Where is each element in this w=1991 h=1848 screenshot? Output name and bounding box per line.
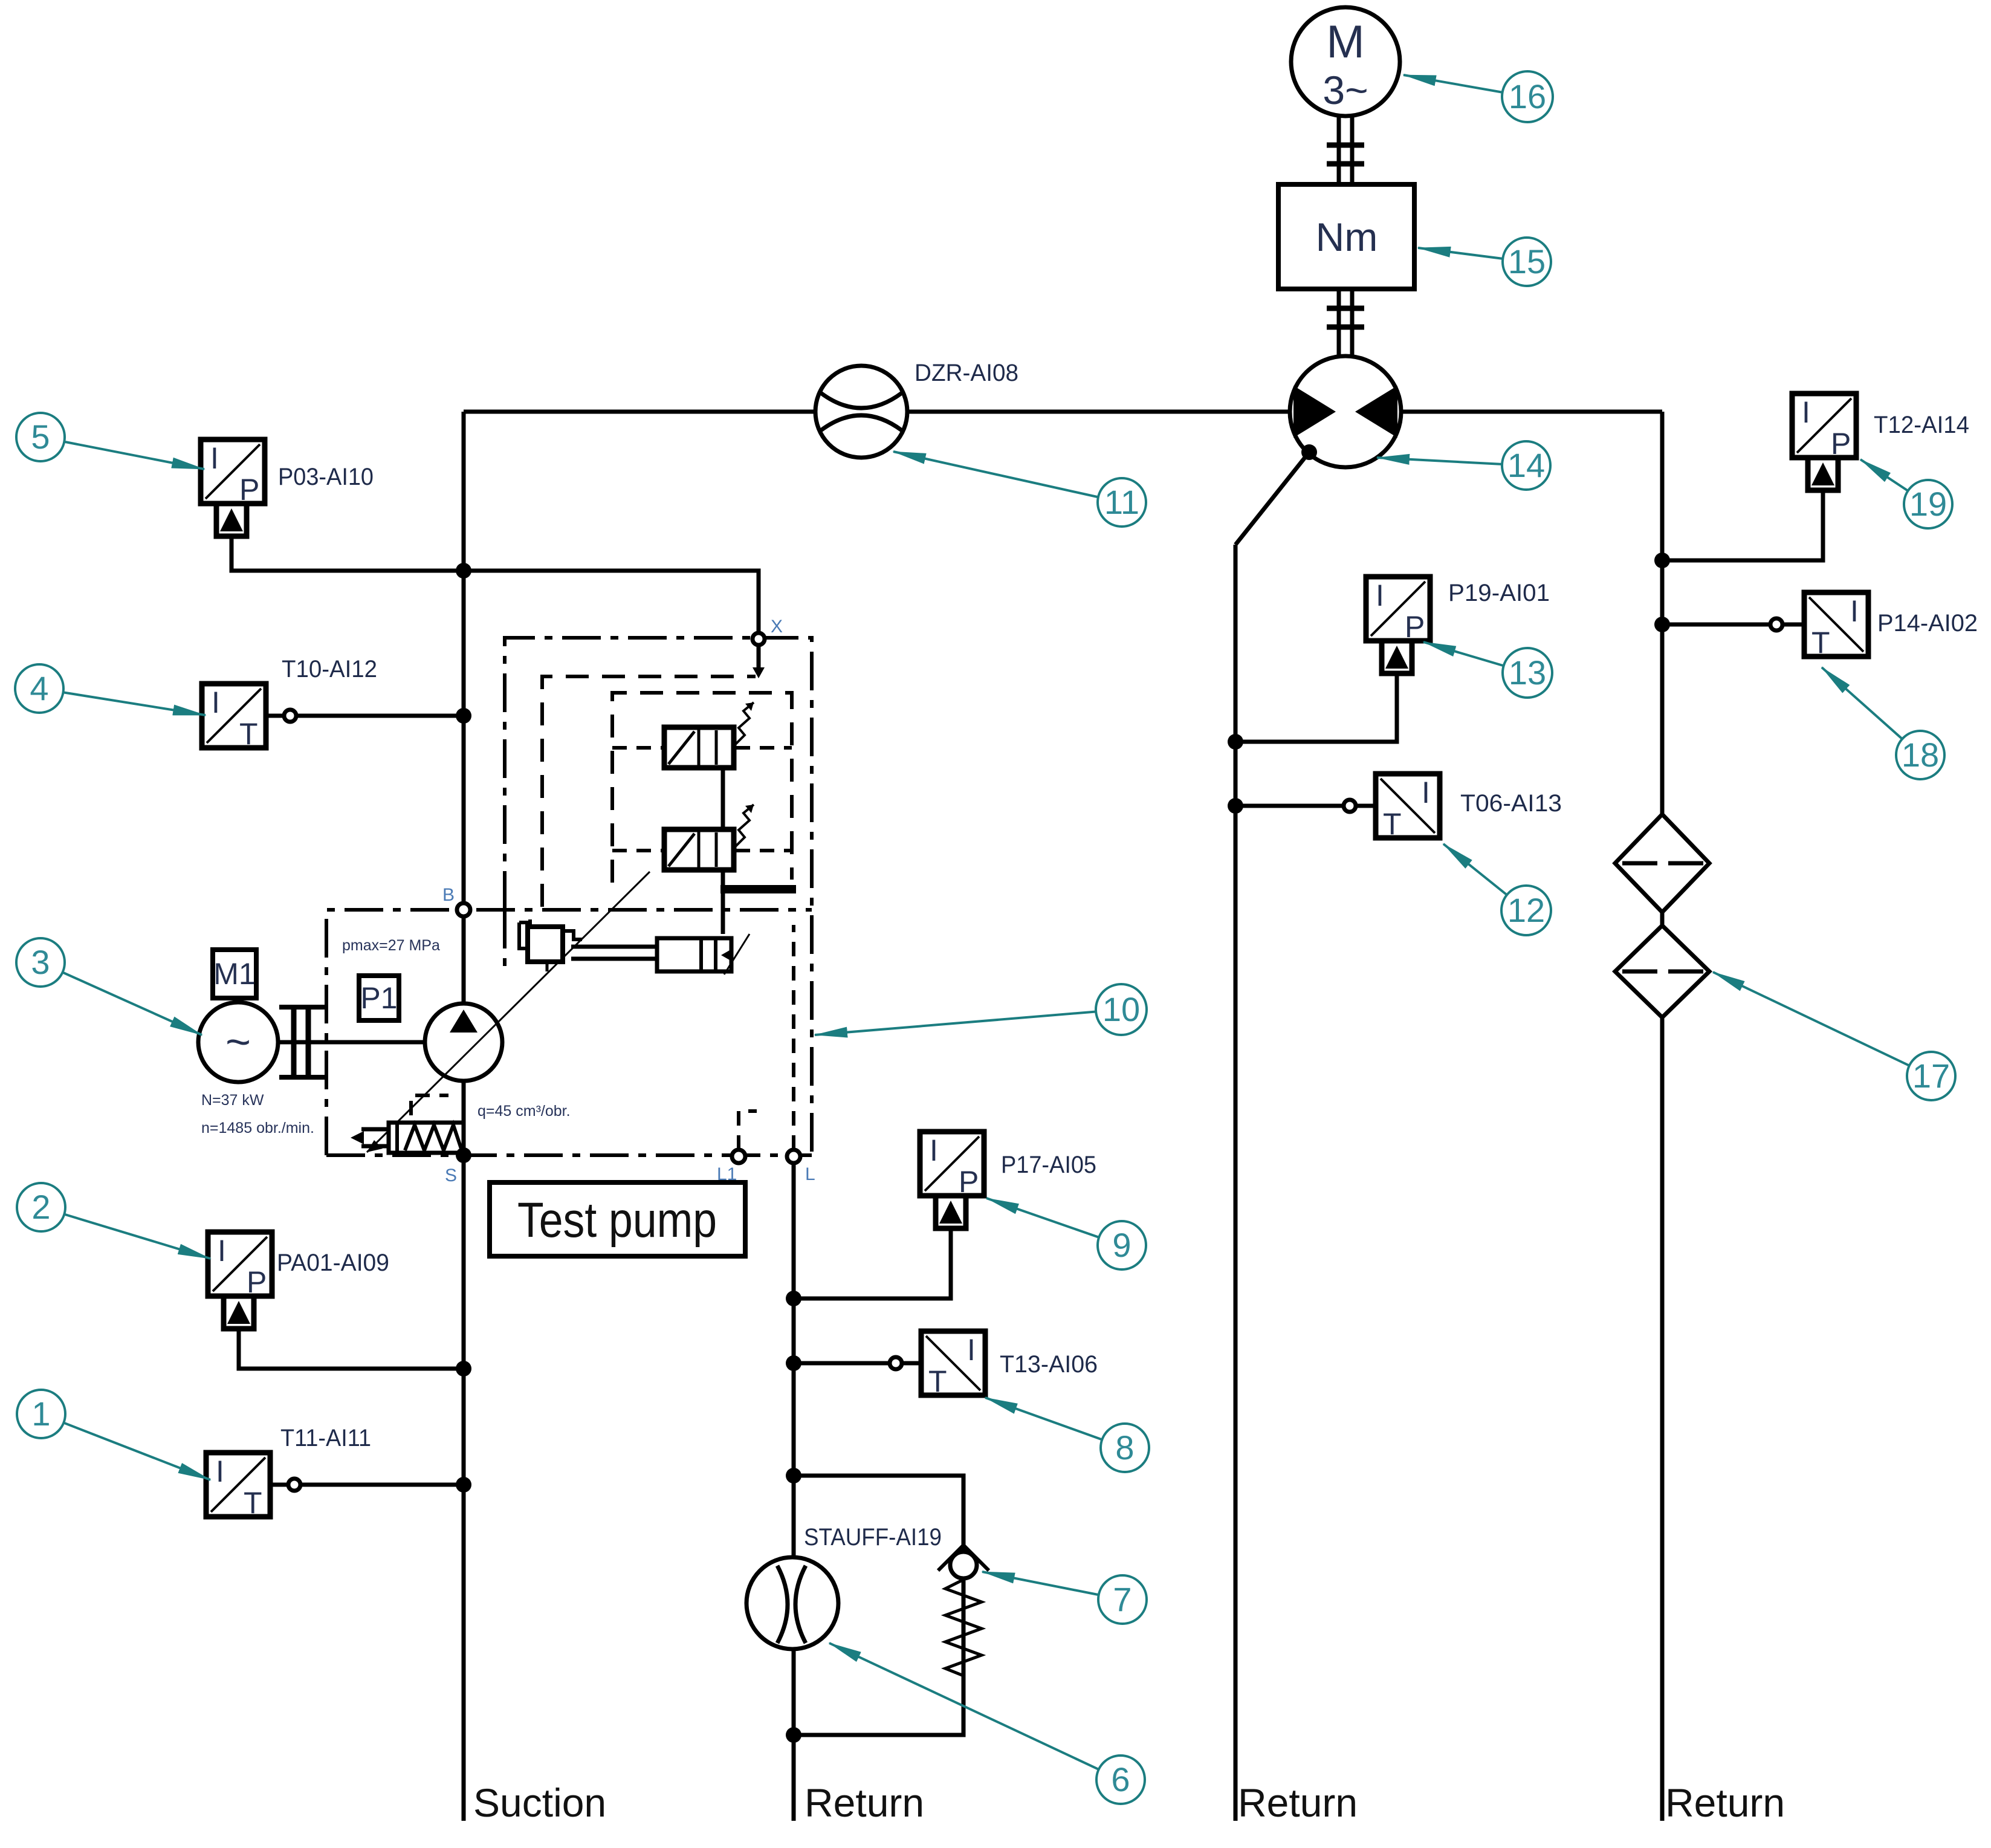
solenoid valve SV1 connection stubs	[612, 746, 792, 750]
svg-text:I: I	[967, 1333, 976, 1367]
callout 11	[893, 452, 1146, 527]
svg-text:5: 5	[31, 418, 50, 456]
wire: compensator rod (double line)	[571, 947, 658, 959]
callout 1	[17, 1390, 210, 1480]
pressure sensor P19-AI01	[1366, 577, 1550, 673]
svg-text:DZR-AI08: DZR-AI08	[915, 360, 1018, 386]
callout 5	[16, 413, 204, 469]
temperature sensor T13-AI06	[890, 1331, 1098, 1398]
hydraulic motor (item 14)	[1290, 356, 1401, 467]
pilot control valve of compensator	[519, 919, 582, 971]
junction on V2 at bypass bottom	[786, 1727, 801, 1743]
electric motor M 3~ (item 16)	[1291, 7, 1400, 116]
junction on V2 at bypass top	[786, 1468, 801, 1483]
svg-text:14: 14	[1507, 446, 1545, 484]
inner dashed box A	[542, 676, 756, 907]
pressure sensor PA01-AI09	[208, 1232, 389, 1329]
callout 6	[829, 1643, 1145, 1804]
svg-text:X: X	[771, 617, 783, 637]
svg-text:I: I	[1422, 776, 1430, 809]
wire: T13 sensor branch	[794, 1361, 921, 1366]
coupling M/torque meter	[1327, 116, 1364, 184]
svg-text:19: 19	[1909, 485, 1947, 523]
Test pump label box	[490, 1182, 745, 1256]
coupling M1/P1	[279, 1007, 325, 1077]
wire: P19 sensor branch	[1235, 673, 1397, 742]
svg-text:10: 10	[1102, 990, 1140, 1028]
svg-text:Suction: Suction	[473, 1780, 606, 1825]
svg-text:7: 7	[1113, 1580, 1131, 1618]
wire: return vertical line V4	[1660, 412, 1665, 1821]
wire: suction vertical line V1	[462, 412, 466, 1821]
X pilot arrow	[757, 647, 761, 670]
callout 4	[15, 664, 206, 715]
wire: T11 sensor branch	[270, 1483, 464, 1487]
junction on V1 at P03/X branch	[456, 563, 471, 579]
callout 9	[986, 1198, 1146, 1269]
svg-text:6: 6	[1111, 1760, 1130, 1798]
callout 17	[1713, 972, 1955, 1100]
check valve with spring (bypass)	[938, 1545, 989, 1676]
solenoid valve SV2	[664, 805, 754, 870]
temperature sensor P14-AI02	[1770, 592, 1978, 660]
callout 2	[17, 1183, 210, 1259]
swashplate arrow	[367, 872, 650, 1152]
temperature sensor T06-AI13	[1344, 774, 1562, 841]
solenoid valve SV2 connection stubs	[612, 849, 792, 852]
svg-text:I: I	[930, 1133, 938, 1167]
wire: T10 sensor branch	[266, 714, 464, 718]
valve block outer chain-line enclosure	[505, 638, 812, 1155]
svg-text:M1: M1	[213, 957, 255, 991]
junction on V3 at T06 branch	[1228, 798, 1243, 814]
svg-text:P17-AI05: P17-AI05	[1001, 1152, 1096, 1178]
svg-text:P1: P1	[360, 981, 397, 1015]
port L1	[717, 1150, 745, 1184]
svg-text:T: T	[928, 1364, 947, 1398]
plugged port bar	[720, 885, 796, 893]
svg-text:T13-AI06: T13-AI06	[1000, 1351, 1098, 1378]
svg-text:P03-AI10: P03-AI10	[278, 464, 374, 490]
svg-text:12: 12	[1507, 891, 1545, 929]
solenoid valve SV1	[664, 702, 754, 768]
junction on V4 at T12 branch	[1654, 553, 1670, 568]
svg-text:1: 1	[31, 1395, 50, 1433]
svg-text:Return: Return	[1238, 1780, 1358, 1825]
wire: return vertical line V3	[1234, 545, 1238, 1821]
callout 3	[16, 938, 202, 1035]
port X	[753, 617, 783, 645]
pressure sensor P03-AI10	[201, 439, 374, 536]
wire: P17 sensor branch	[794, 1228, 951, 1298]
flow meter STAUFF-AI19	[746, 1524, 942, 1649]
coupling torque meter/hydraulic motor	[1327, 289, 1364, 356]
junction on V2 at T13 branch	[786, 1355, 801, 1371]
port B	[442, 885, 470, 916]
svg-text:T: T	[1811, 626, 1830, 660]
svg-text:T10-AI12: T10-AI12	[282, 656, 377, 682]
pressure sensor T12-AI14	[1792, 394, 1969, 490]
svg-text:Return: Return	[1665, 1780, 1785, 1825]
wire: P14 sensor branch	[1662, 623, 1804, 627]
callout 14	[1377, 441, 1550, 490]
callout 18	[1822, 667, 1944, 779]
junction on V1 at PA01 branch	[456, 1361, 471, 1376]
svg-text:Return: Return	[804, 1780, 924, 1825]
wire: return vertical line V2	[792, 1156, 796, 1821]
callout 10	[815, 984, 1147, 1035]
svg-text:17: 17	[1912, 1057, 1950, 1095]
svg-text:13: 13	[1509, 653, 1546, 692]
svg-text:L: L	[805, 1164, 815, 1184]
electric motor M1	[198, 1002, 278, 1082]
svg-text:M: M	[1326, 16, 1364, 68]
svg-text:11: 11	[1104, 483, 1139, 521]
svg-text:n=1485 obr./min.: n=1485 obr./min.	[201, 1120, 314, 1136]
callout 8	[985, 1398, 1149, 1472]
svg-text:~: ~	[225, 1018, 251, 1066]
wire: L case drain line inside (dashed)	[792, 925, 795, 1150]
svg-text:3: 3	[31, 943, 50, 981]
inner dashed box B	[612, 693, 792, 883]
stroking cylinder	[657, 934, 749, 974]
svg-text:S: S	[445, 1166, 457, 1185]
svg-text:STAUFF-AI19: STAUFF-AI19	[804, 1524, 942, 1551]
svg-text:T12-AI14: T12-AI14	[1874, 412, 1969, 438]
wire: P03 sensor branch to X pilot	[231, 536, 759, 632]
svg-text:I: I	[216, 1454, 224, 1488]
temperature sensor T10-AI12	[202, 656, 377, 751]
svg-text:I: I	[210, 441, 219, 475]
svg-text:Nm: Nm	[1316, 215, 1378, 259]
svg-text:8: 8	[1115, 1428, 1134, 1467]
port L	[787, 1150, 815, 1184]
temperature sensor T11-AI11	[206, 1425, 371, 1520]
torque meter Nm (item 15)	[1278, 184, 1414, 289]
svg-text:T06-AI13: T06-AI13	[1460, 790, 1562, 817]
svg-text:T: T	[244, 1486, 262, 1520]
pressure sensor P17-AI05	[920, 1132, 1096, 1228]
wire: T12 sensor branch	[1662, 490, 1823, 560]
svg-text:B: B	[442, 885, 455, 905]
callout 15	[1418, 238, 1551, 286]
svg-text:T: T	[239, 717, 258, 751]
svg-text:Test pump: Test pump	[517, 1193, 717, 1248]
callout 16	[1403, 71, 1553, 122]
svg-text:PA01-AI09: PA01-AI09	[277, 1250, 389, 1276]
wire: T06 sensor branch	[1235, 804, 1376, 808]
svg-text:P14-AI02: P14-AI02	[1877, 610, 1978, 637]
filter 1 (item 17)	[1615, 814, 1709, 912]
svg-text:pmax=27 MPa: pmax=27 MPa	[342, 937, 440, 954]
callout 13	[1423, 642, 1552, 698]
port S	[445, 1147, 471, 1185]
wire: motor drain diagonal	[1235, 452, 1309, 545]
svg-text:18: 18	[1902, 736, 1939, 774]
test pump unit chain-line enclosure	[326, 910, 812, 1155]
shaft M1 to P1	[278, 1040, 425, 1045]
wire: pump pressure line (top horizontal)	[464, 410, 1662, 414]
svg-text:2: 2	[31, 1188, 50, 1226]
svg-text:16: 16	[1509, 77, 1546, 115]
junction on V1 at T10 branch	[456, 708, 471, 724]
wire: PA01 sensor branch	[239, 1329, 464, 1369]
svg-text:T: T	[1383, 807, 1402, 841]
svg-text:I: I	[1376, 579, 1384, 612]
flow meter DZR-AI08	[815, 360, 1018, 458]
M1 designator box	[213, 950, 256, 998]
junction on V1 at T11 branch	[456, 1477, 471, 1493]
svg-text:9: 9	[1112, 1226, 1131, 1264]
P1 designator box	[359, 976, 399, 1020]
svg-text:q=45 cm³/obr.: q=45 cm³/obr.	[478, 1103, 571, 1120]
svg-text:I: I	[212, 686, 220, 719]
variable displacement pump P1	[425, 1003, 502, 1081]
callout 19	[1860, 459, 1952, 528]
svg-text:T11-AI11: T11-AI11	[280, 1425, 371, 1451]
svg-text:I: I	[218, 1234, 226, 1268]
svg-text:I: I	[1802, 395, 1810, 429]
junction on V4 at P14 branch	[1654, 617, 1670, 632]
svg-text:4: 4	[30, 669, 48, 707]
svg-text:15: 15	[1508, 242, 1546, 280]
pressure compensator (spring-piston)	[351, 1095, 464, 1153]
svg-text:N=37 kW: N=37 kW	[201, 1092, 264, 1109]
svg-text:3~: 3~	[1322, 68, 1368, 112]
wire: STAUFF bypass loop	[794, 1476, 963, 1735]
filter 2 (item 17)	[1615, 926, 1709, 1017]
svg-text:P19-AI01: P19-AI01	[1448, 580, 1550, 606]
callout 7	[982, 1572, 1147, 1624]
junction on V2 at P17 branch	[786, 1291, 801, 1306]
svg-text:I: I	[1850, 594, 1859, 628]
wire: L1 drain stub (dashed)	[739, 1111, 757, 1150]
wire: inter-valve connector	[721, 769, 725, 934]
junction on V3 at P19 branch	[1228, 734, 1243, 750]
callout 12	[1443, 844, 1551, 935]
